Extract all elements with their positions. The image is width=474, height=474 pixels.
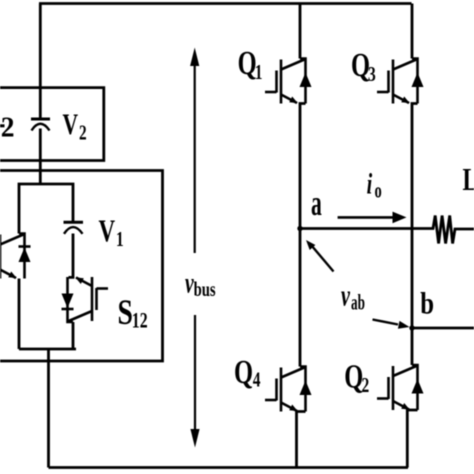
svg-text:ab: ab [351, 290, 365, 314]
svg-text:Q: Q [344, 359, 363, 396]
svg-text:V: V [63, 108, 79, 141]
svg-text:i: i [367, 166, 373, 200]
svg-text:Q: Q [234, 354, 253, 391]
svg-text:v: v [341, 278, 350, 312]
svg-text:12: 12 [132, 309, 148, 333]
svg-text:2: 2 [79, 121, 87, 144]
svg-text:v: v [185, 266, 194, 299]
svg-text:1: 1 [255, 61, 263, 85]
svg-text:1: 1 [116, 228, 124, 251]
svg-text:o: o [375, 179, 382, 204]
svg-text:bus: bus [194, 277, 216, 300]
svg-text:V: V [99, 213, 116, 248]
svg-text:3: 3 [368, 63, 376, 87]
svg-text:L: L [463, 163, 474, 198]
svg-text:S: S [118, 293, 133, 332]
svg-text:Q: Q [351, 47, 370, 84]
svg-text:a: a [311, 184, 322, 223]
svg-text:2: 2 [362, 374, 370, 398]
svg-text:b: b [420, 287, 434, 321]
svg-text:Q: Q [238, 45, 257, 82]
svg-text:4: 4 [253, 368, 261, 392]
svg-text:2: 2 [1, 112, 15, 144]
